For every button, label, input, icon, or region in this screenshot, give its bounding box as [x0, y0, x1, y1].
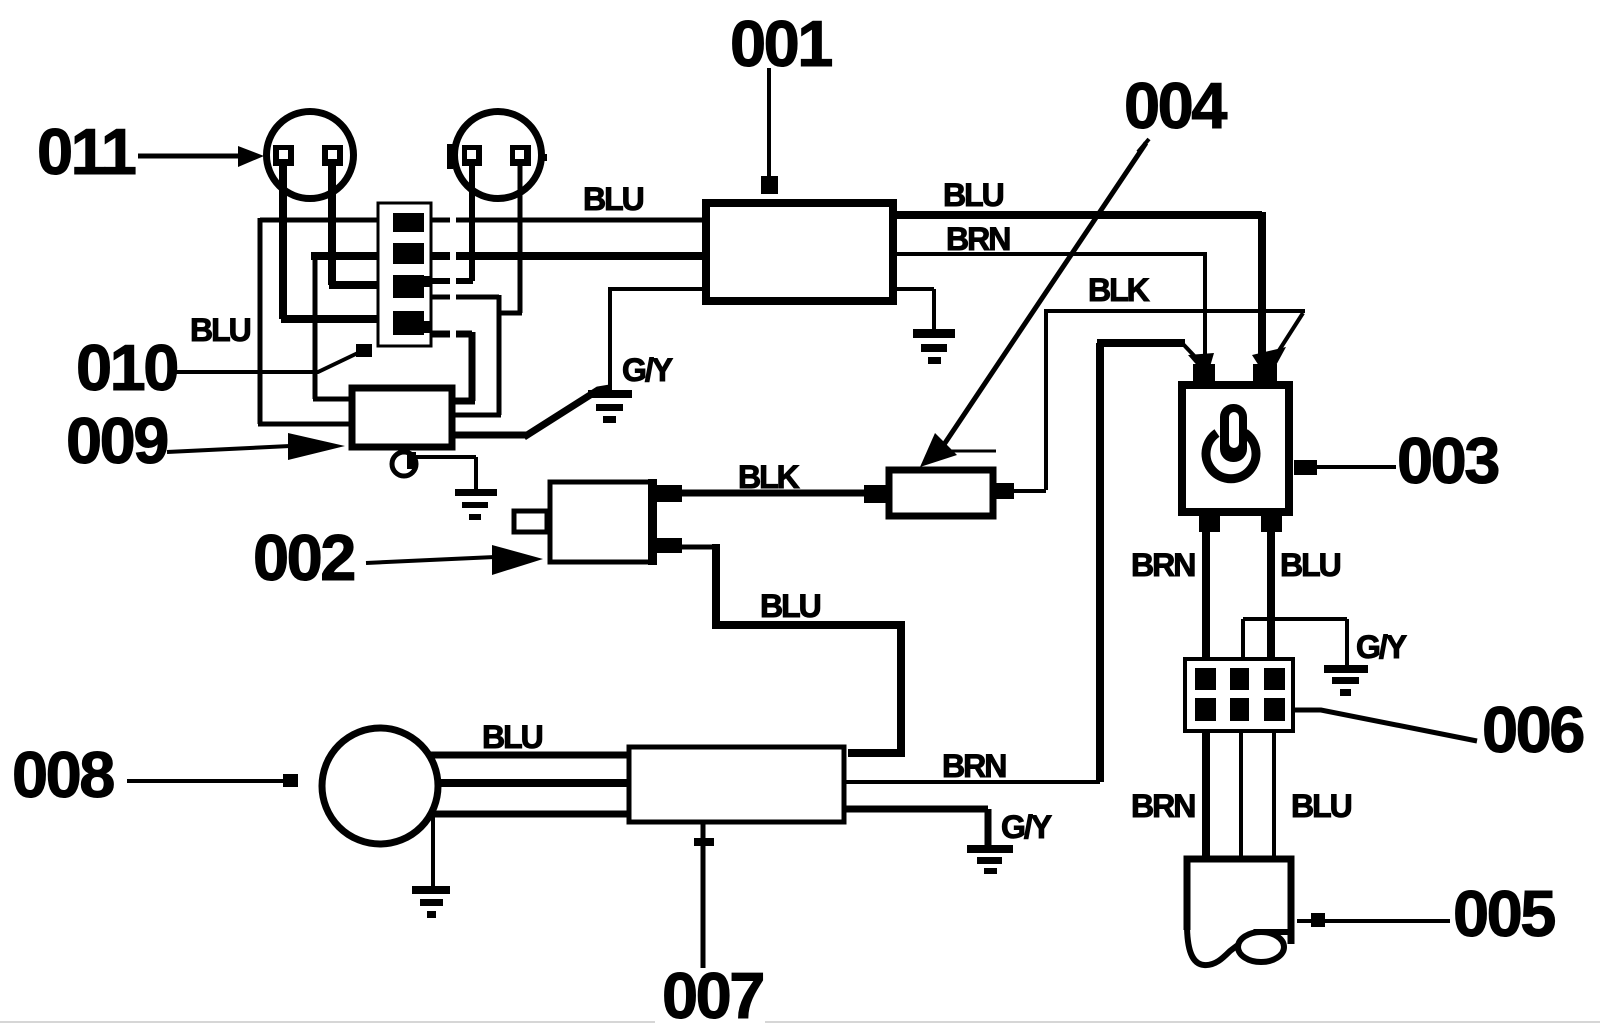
switch 003 — [1182, 364, 1317, 532]
wire pin3 upper right to socket2 left terminal — [429, 160, 473, 281]
svg-text:BLU: BLU — [943, 177, 1004, 213]
ground below motor — [412, 886, 450, 918]
resistor 004 — [864, 470, 1014, 516]
wire BLU 001 to switch 003 (thick) — [895, 212, 1262, 366]
wire socket1 right terminal to pin3 — [329, 160, 395, 285]
svg-text:006: 006 — [1482, 693, 1583, 766]
svg-text:BLK: BLK — [1088, 272, 1150, 308]
wire BRN 007 to switch horizontal — [846, 780, 1100, 784]
leader 002 — [366, 545, 543, 575]
leader 003 — [1317, 465, 1396, 469]
006 pins — [1195, 668, 1285, 721]
pin 3 — [393, 275, 432, 298]
wire G/Y 007 to ground — [846, 809, 988, 846]
wire pin2 to unit 001 (BRN thick, y255) — [311, 252, 704, 260]
tick right of socket2 — [538, 154, 547, 161]
leader 004 (diagonal) — [920, 139, 1149, 467]
svg-text:008: 008 — [12, 738, 114, 811]
svg-text:G/Y: G/Y — [1356, 629, 1407, 665]
leader 011 — [138, 146, 264, 167]
wire bulb to ground — [416, 457, 476, 489]
svg-text:BRN: BRN — [946, 221, 1009, 257]
socket2 right terminal — [510, 145, 531, 166]
bulb under relay 009 — [392, 452, 416, 476]
svg-text:003: 003 — [1397, 424, 1498, 497]
leader 007 — [694, 824, 714, 968]
leader 010 — [172, 344, 372, 372]
wire motor bottom to 007 — [431, 811, 630, 818]
wire relay 009 to G/Y ground (squiggle) — [452, 388, 610, 437]
ground below relay 009 — [455, 489, 497, 520]
leader 008 — [127, 774, 298, 787]
connector 006 — [1185, 659, 1293, 731]
svg-text:007: 007 — [662, 959, 763, 1029]
svg-text:G/Y: G/Y — [1001, 809, 1052, 845]
wire socket2 right terminal drop — [497, 160, 522, 313]
wire BRN 001 to switch 003 (thin) — [895, 252, 1205, 366]
wire G/Y stub from unit 001 — [608, 289, 704, 391]
wire pin4 right to relay 009 right (via x472) — [429, 332, 475, 401]
connector strip 010 — [378, 203, 431, 346]
wire pin1 left drop to relay 009 — [258, 218, 350, 424]
svg-text:BLU: BLU — [190, 312, 251, 348]
wire pin3 lower right to relay 009 right (via x499) — [429, 295, 501, 415]
pin 1 — [393, 213, 424, 232]
wire BLU switch to connector 006 — [1267, 532, 1275, 668]
wire G/Y jog at connector 006 — [1243, 619, 1347, 666]
socket2 left terminal — [462, 145, 482, 166]
wire BLU 002 to 007 — [682, 545, 714, 550]
scan streak (white gap) — [450, 205, 456, 347]
wire pin1 to unit 001 (BLU thin, y220) — [260, 218, 702, 223]
bulb holder 005 — [1187, 859, 1292, 965]
leader 005 — [1297, 913, 1450, 927]
power icon in switch 003 — [1206, 404, 1256, 479]
wire socket1 left terminal to pin4 — [281, 160, 395, 319]
leader 001 — [761, 68, 778, 194]
wire BLU 006 to 005 — [1272, 731, 1276, 857]
svg-text:BLU: BLU — [1280, 547, 1341, 583]
wire motor top (BLU) to 007 — [430, 752, 630, 759]
svg-text:009: 009 — [66, 404, 167, 477]
pin 2 — [393, 243, 424, 264]
svg-text:BRN: BRN — [1131, 547, 1194, 583]
svg-text:010: 010 — [76, 331, 177, 404]
svg-text:005: 005 — [1453, 877, 1555, 950]
ground right of 001 — [913, 329, 955, 364]
wire BLK net (004 to switch) — [1014, 309, 1305, 491]
svg-text:004: 004 — [1124, 69, 1227, 142]
svg-text:001: 001 — [730, 7, 832, 80]
lamp socket 011 (left circle) — [267, 112, 354, 199]
wire motor to ground — [431, 812, 435, 887]
svg-text:BLK: BLK — [738, 459, 800, 495]
arrow into switch right terminal — [1252, 313, 1303, 380]
socket1 left terminal — [273, 145, 294, 166]
svg-text:G/Y: G/Y — [622, 352, 673, 388]
wire BRN 007 to switch (vertical x1100) — [1097, 343, 1185, 782]
wire BRN 006 to 005 — [1202, 731, 1210, 857]
control unit 001 — [706, 203, 893, 301]
svg-text:BRN: BRN — [1131, 788, 1194, 824]
pin 4 — [393, 311, 432, 335]
wire pin2 left drop to relay 009 — [313, 256, 350, 399]
socket1 right terminal — [322, 145, 343, 166]
wire unit 001 right ground stub — [895, 289, 934, 330]
svg-text:BLU: BLU — [760, 588, 821, 624]
svg-text:011: 011 — [37, 115, 136, 188]
ground near 006 — [1324, 665, 1368, 696]
wire motor mid to 007 — [437, 779, 630, 787]
svg-text:002: 002 — [253, 521, 354, 594]
svg-text:BLU: BLU — [583, 181, 644, 217]
arrow into switch left terminal — [1183, 344, 1214, 377]
ignition unit 002 — [514, 479, 682, 565]
svg-text:BRN: BRN — [942, 748, 1005, 784]
ground right of 007 — [967, 845, 1013, 874]
leader 009 — [167, 433, 345, 460]
svg-text:BLU: BLU — [482, 719, 543, 755]
control unit 007 — [629, 747, 844, 822]
bottom page edge line — [0, 1021, 655, 1023]
wire BLK 002 to 004 — [680, 490, 866, 497]
motor 008 — [322, 728, 438, 844]
wire BRN switch to connector 006 — [1202, 532, 1210, 668]
relay 009 — [352, 388, 452, 447]
lamp socket 2 (right circle) — [455, 112, 542, 199]
wire mid 006 to 005 — [1239, 731, 1243, 857]
ground G/Y near 001 — [588, 390, 632, 423]
tick left of socket2 — [447, 144, 453, 169]
leader 006 — [1293, 710, 1477, 741]
svg-text:BLU: BLU — [1291, 788, 1352, 824]
